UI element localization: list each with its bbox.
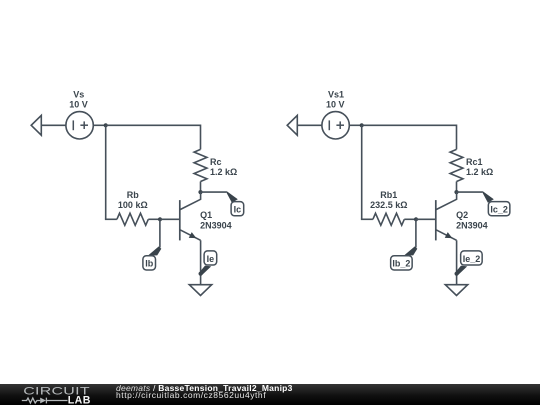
- wire left rail down: [105, 125, 107, 219]
- svg-text:Ib: Ib: [145, 259, 154, 269]
- junction collector node (right): [454, 190, 458, 194]
- current label Ib box: [143, 256, 156, 270]
- wire collector-node-to-Ic_2-flag: [457, 191, 483, 193]
- junction emitter probe node: [199, 272, 203, 276]
- svg-text:1.2 kΩ: 1.2 kΩ: [466, 167, 493, 177]
- transistor Q1 collector lead: [180, 192, 200, 209]
- resistor Rb1: [373, 213, 404, 225]
- transistor Q2 emitter lead: [436, 230, 456, 240]
- transistor Q2 collector lead: [436, 192, 456, 209]
- current label flag Ie_2 pointer: [455, 266, 467, 276]
- svg-text:LAB: LAB: [68, 394, 91, 405]
- svg-text:232.5 kΩ: 232.5 kΩ: [370, 200, 407, 210]
- resistor Rc: [194, 149, 207, 181]
- svg-text:2N3904: 2N3904: [200, 221, 232, 231]
- junction node1: [104, 123, 108, 127]
- footer line 2: url: [116, 390, 266, 400]
- voltage source Vs minus terminal mark: [72, 120, 74, 130]
- svg-text:10 V: 10 V: [326, 99, 345, 109]
- wire source-to-node2: [349, 124, 361, 126]
- voltage source Vs body: [66, 112, 93, 139]
- footer bar: [0, 384, 540, 405]
- wire down to Rc: [200, 125, 202, 150]
- current label flag Ie pointer: [199, 266, 211, 276]
- ground G1: [189, 285, 211, 296]
- wire port-to-source: [41, 124, 66, 126]
- wire left rail down (right): [361, 125, 363, 219]
- junction base node: [158, 217, 162, 221]
- wire base-node-to-Q1: [160, 218, 180, 220]
- CircuitLab logo: [0, 384, 110, 405]
- svg-text:Ie_2: Ie_2: [463, 254, 481, 264]
- svg-text:10 V: 10 V: [69, 99, 88, 109]
- voltage source Vs1 minus terminal mark: [328, 120, 330, 130]
- svg-text:Rc1: Rc1: [466, 157, 483, 167]
- current label Ib_2 box: [391, 256, 413, 270]
- current label flag Ic pointer: [227, 191, 238, 203]
- svg-text:Vs1: Vs1: [328, 89, 344, 99]
- wire Rb-to-base-node: [148, 218, 160, 220]
- wire collector-node-to-Ic-flag: [201, 191, 227, 193]
- transistor Q2 emitter arrow: [445, 232, 453, 238]
- wire source-to-node1: [93, 124, 105, 126]
- current label Ic_2 box: [488, 202, 510, 216]
- svg-text:100 kΩ: 100 kΩ: [118, 200, 148, 210]
- wire rail-to-Rb1: [361, 218, 373, 220]
- transistor Q2 base bar: [435, 200, 437, 240]
- voltage source Vs1 plus terminal mark: [336, 121, 344, 129]
- wire emitter down (right): [456, 240, 458, 284]
- svg-text:Rb: Rb: [127, 190, 139, 200]
- wire down to Rc1: [456, 125, 458, 150]
- wire top rail (right): [362, 124, 457, 126]
- svg-text:Q2: Q2: [456, 210, 468, 220]
- svg-text:Ie: Ie: [207, 254, 215, 264]
- current label Ie_2 box: [461, 251, 483, 265]
- current label Ic box: [231, 202, 244, 216]
- svg-text:2N3904: 2N3904: [456, 221, 488, 231]
- current label Ie box: [204, 251, 217, 265]
- transistor Q1 emitter lead: [180, 230, 200, 240]
- transistor Q1 emitter arrow: [189, 232, 197, 238]
- wire Rc-to-collector-node: [200, 182, 202, 193]
- svg-text:Rc: Rc: [210, 157, 222, 167]
- port flag P (left circuit input): [31, 115, 41, 135]
- current label flag Ib_2 pointer: [404, 246, 417, 255]
- svg-text:Rb1: Rb1: [380, 190, 397, 200]
- ground G2: [445, 285, 467, 296]
- wire Rb1-to-base-node: [404, 218, 416, 220]
- svg-text:Vs: Vs: [73, 89, 84, 99]
- junction node2: [360, 123, 364, 127]
- svg-text:Ic_2: Ic_2: [490, 205, 508, 215]
- footer line 1: author / title: [116, 383, 293, 393]
- port flag P2 (right circuit input): [287, 115, 297, 135]
- wire emitter down: [200, 240, 202, 284]
- current label flag Ic_2 pointer: [483, 191, 494, 203]
- junction base node (right): [414, 217, 418, 221]
- wire port-to-source (right): [297, 124, 322, 126]
- resistor Rc1: [450, 149, 463, 181]
- wire Ib probe drop: [159, 219, 161, 247]
- voltage source Vs plus terminal mark: [80, 121, 88, 129]
- wire Ib_2 probe drop: [415, 219, 417, 247]
- svg-text:1.2 kΩ: 1.2 kΩ: [210, 167, 237, 177]
- svg-text:Ic: Ic: [234, 205, 242, 215]
- wire top rail: [106, 124, 201, 126]
- wire Rc1-to-collector-node: [456, 182, 458, 193]
- resistor Rb: [117, 213, 148, 225]
- wire base-node-to-Q2: [416, 218, 436, 220]
- voltage source Vs1 body: [322, 112, 349, 139]
- wire left-rail-to-Rb: [105, 218, 117, 220]
- junction emitter probe node (right): [455, 272, 459, 276]
- current label flag Ib pointer: [148, 246, 161, 255]
- svg-text:Ib_2: Ib_2: [392, 259, 410, 269]
- svg-text:Q1: Q1: [200, 210, 212, 220]
- transistor Q1 base bar: [179, 200, 181, 240]
- junction collector node: [198, 190, 202, 194]
